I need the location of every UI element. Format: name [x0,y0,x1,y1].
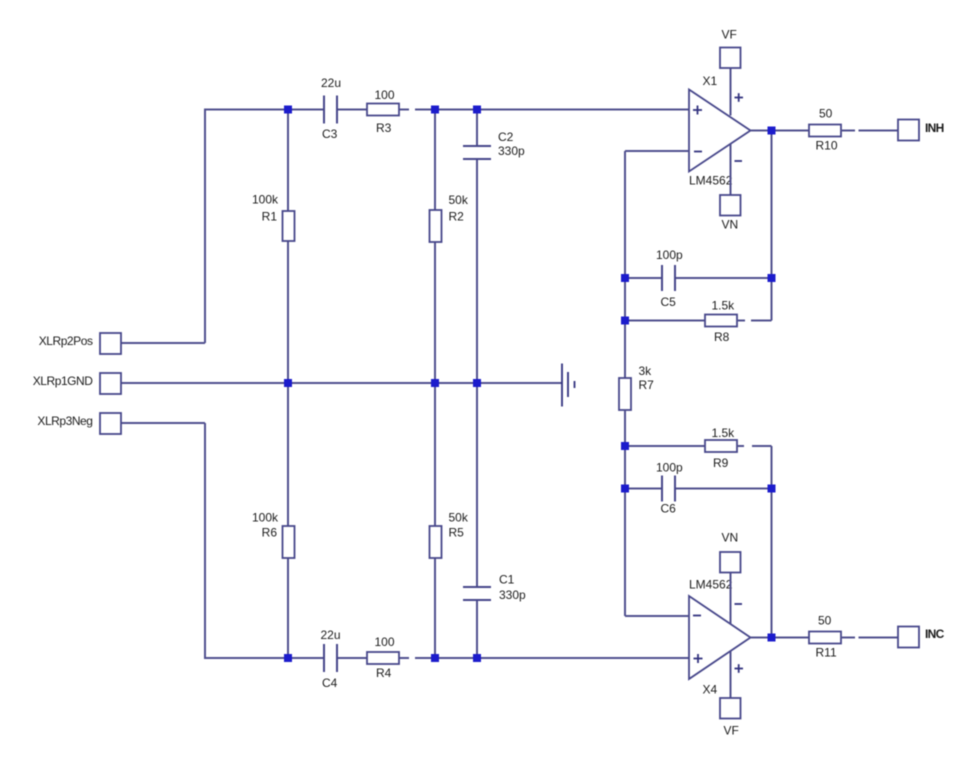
wire bottom rail left segment [205,423,288,658]
svg-text:C4: C4 [322,676,338,690]
svg-text:LM4562: LM4562 [689,578,733,592]
op-amp X4 noninverting input plus mark [694,654,703,663]
junction bottom rail at C1 [473,654,481,662]
svg-text:22u: 22u [321,76,341,90]
svg-text:R8: R8 [714,330,730,344]
svg-text:100: 100 [375,88,395,102]
svg-text:330p: 330p [498,144,525,158]
capacitor C6 [662,476,675,502]
wire X1 negative supply pin [730,144,732,195]
junction X1 output [768,127,776,135]
wire C4 to R4 [338,657,367,659]
ground symbol [562,364,575,407]
wire R9 right lead [737,445,744,447]
wire R6 bottom [287,558,289,658]
svg-text:100: 100 [375,635,395,649]
wire feedback left column upper [624,151,626,378]
svg-text:50k: 50k [449,193,469,207]
port XLRp3Neg [100,413,121,434]
svg-text:1.5k: 1.5k [712,299,736,313]
capacitor C5 [662,265,675,291]
svg-text:X4: X4 [703,683,718,697]
wire R5 top from mid rail [434,383,436,526]
resistor R6 [283,526,295,558]
wire X1 output to R10 [751,130,810,132]
svg-text:R3: R3 [376,121,392,135]
wire ground rail from XLRp1GND [120,382,562,384]
wire R8 to right column [751,320,772,322]
wire C2 bottom to mid rail [476,159,478,383]
svg-text:X1: X1 [703,74,718,88]
wire X4 output to R11 [751,637,810,639]
junction bottom rail at R5 [431,654,439,662]
port VN supply flag of X4 [720,552,741,573]
wire C1 bottom [476,600,478,658]
svg-text:VF: VF [722,28,737,42]
wire R4 right lead [399,657,409,659]
minus mark at X4 negative supply [735,603,743,605]
svg-text:100p: 100p [656,248,683,262]
wire C5 left lead [625,277,662,279]
svg-text:XLRp2Pos: XLRp2Pos [39,334,93,348]
wire X1 inverting input [625,150,689,152]
junction top rail at C2 [473,106,481,114]
svg-text:C2: C2 [498,130,514,144]
junction bottom rail at R6 [284,654,292,662]
capacitor C3 [324,96,337,124]
svg-text:INH: INH [925,121,944,135]
port INH [898,120,919,141]
capacitor C1 [463,587,491,600]
wire bottom rail junction to C4 [288,657,323,659]
plus mark at X4 positive supply [735,664,744,673]
svg-text:VN: VN [722,218,739,232]
junction top rail at R1 [284,106,292,114]
junction mid rail at R1 [284,379,292,387]
junction X4 output [768,634,776,642]
wire R3 to node at R2 top [415,109,477,111]
op-amp U2 X4 triangle [689,596,751,679]
resistor R3 [367,104,399,116]
wire R4 to node at R5 bottom [415,657,477,659]
svg-text:R5: R5 [449,526,465,540]
port VF supply flag of X1 [720,48,741,69]
wire C3 to R3 [338,109,367,111]
wire R3 right lead [399,109,409,111]
capacitor C2 [463,146,491,159]
svg-text:330p: 330p [499,588,526,602]
svg-text:100k: 100k [252,511,279,525]
wire R1 top [287,110,289,212]
junction mid rail at C2 [473,379,481,387]
resistor R8 [705,315,737,327]
wire bottom rail to op-amp noninverting input [477,657,689,659]
svg-text:1.5k: 1.5k [712,426,736,440]
wire X4 negative supply pin [730,573,732,624]
junction left column at C6 [621,485,629,493]
svg-text:C1: C1 [499,573,515,587]
svg-text:R2: R2 [449,210,465,224]
svg-text:C5: C5 [661,295,677,309]
junction left column at C5 [621,274,629,282]
wire X1 positive supply pin [730,68,732,116]
wire R10 to INH port [859,130,899,132]
svg-text:R4: R4 [376,666,392,680]
wire R2 top [434,110,436,211]
svg-text:R9: R9 [713,456,729,470]
wire R1 bottom to mid rail [287,241,289,383]
junction left column at R8 [621,317,629,325]
svg-text:R6: R6 [262,526,278,540]
wire top rail to op-amp noninverting input [477,109,689,111]
svg-text:LM4562: LM4562 [689,174,733,188]
svg-text:R7: R7 [639,378,655,392]
port XLRp2Pos [100,333,121,354]
svg-text:XLRp3Neg: XLRp3Neg [37,414,92,428]
svg-text:50: 50 [818,614,832,628]
wire X4 positive supply pin [730,652,732,699]
wire C2 top [476,110,478,147]
wire top rail left segment [205,110,288,344]
wire R8 right lead [737,320,745,322]
plus mark at X1 positive supply [735,93,744,102]
wire R9 left lead [625,445,705,447]
wire XLRp3Neg to bottom rail [120,422,205,424]
wire R6 top from mid rail [287,383,289,526]
svg-text:R1: R1 [262,210,278,224]
op-amp X1 noninverting input plus mark [693,106,702,115]
port VF supply flag of X4 [720,698,741,719]
svg-text:100p: 100p [656,461,683,475]
wire R8 left lead [625,320,705,322]
wire C6 left lead [625,488,662,490]
svg-text:VF: VF [724,724,739,738]
svg-text:3k: 3k [639,364,653,378]
svg-text:C3: C3 [322,127,338,141]
resistor R5 [430,526,442,558]
svg-text:50: 50 [819,107,833,121]
resistor R9 [705,440,737,452]
svg-text:INC: INC [925,627,945,641]
wire R5 bottom [434,558,436,658]
junction right column at C5 [768,274,776,282]
junction right column at C6 [768,485,776,493]
op-amp X4 inverting input minus mark [693,615,701,617]
wire R11 to INC port [859,637,899,639]
wire feedback right column upper [771,131,773,321]
svg-text:100k: 100k [252,193,279,207]
junction top rail at R2 [431,106,439,114]
port INC [898,627,919,648]
wire XLRp2Pos to top rail [120,342,205,344]
wire top rail junction to C3 [288,109,323,111]
svg-text:50k: 50k [449,511,469,525]
wire C6 right lead [675,488,772,490]
wire R11 right lead [841,637,855,639]
capacitor C4 [324,644,337,672]
svg-text:22u: 22u [321,628,341,642]
svg-text:R10: R10 [816,139,838,153]
wire R2 bottom to mid rail [434,242,436,383]
resistor R7 [619,378,631,410]
wire feedback left column lower [624,410,626,616]
svg-text:VN: VN [722,531,739,545]
wire feedback right column lower [771,446,773,638]
junction left column at R9 [621,442,629,450]
wire R9 to right column [752,445,772,447]
resistor R11 [809,632,841,644]
wire C5 right lead [675,277,772,279]
port VN supply flag of X1 [720,195,741,216]
svg-text:C6: C6 [661,502,677,516]
svg-text:XLRp1GND: XLRp1GND [33,374,94,388]
port XLRp1GND [100,373,121,394]
minus mark at X1 negative supply [735,160,743,162]
wire R10 right lead [841,130,855,132]
resistor R4 [367,652,399,664]
junction mid rail at R2 [431,379,439,387]
wire X4 inverting input [625,615,689,617]
resistor R1 [283,211,295,241]
resistor R10 [809,125,841,137]
op-amp X1 inverting input minus mark [694,151,702,153]
op-amp U1 X1 triangle [689,90,751,172]
svg-text:R11: R11 [816,646,837,660]
resistor R2 [430,210,442,242]
wire C1 top from mid rail [476,383,478,587]
